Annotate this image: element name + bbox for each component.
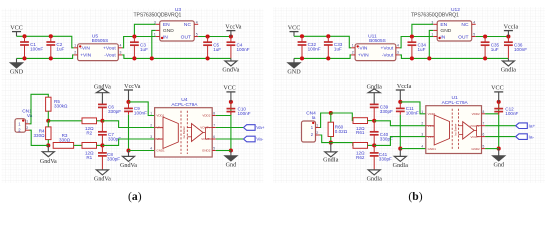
wire bbox=[122, 37, 156, 48]
svg-text:Gnd: Gnd bbox=[493, 162, 504, 168]
resistor R62 bbox=[353, 143, 368, 161]
capacitor C1 bbox=[20, 36, 43, 58]
capacitor C7 bbox=[98, 121, 121, 146]
capacitor C9 bbox=[124, 102, 147, 151]
grid region (a) bbox=[2, 9, 264, 184]
svg-text:1uF: 1uF bbox=[491, 47, 499, 52]
svg-text:330pF: 330pF bbox=[108, 109, 121, 114]
svg-text:ACPL-C79A: ACPL-C79A bbox=[442, 100, 469, 106]
wire bbox=[47, 140, 49, 146]
svg-text:GndVa: GndVa bbox=[222, 68, 239, 74]
junction bbox=[300, 56, 304, 60]
svg-text:VccIa: VccIa bbox=[504, 24, 519, 30]
ground Gnd bbox=[225, 156, 237, 169]
svg-text:GND: GND bbox=[287, 69, 301, 75]
capacitor C4 bbox=[227, 37, 250, 59]
svg-text:100nF: 100nF bbox=[514, 47, 527, 52]
junction bbox=[398, 100, 402, 104]
wire bbox=[30, 94, 49, 124]
junction bbox=[372, 143, 376, 147]
svg-text:1: 1 bbox=[150, 112, 152, 116]
wire bbox=[429, 30, 433, 58]
wire bbox=[331, 113, 353, 121]
svg-text:0.02Ω: 0.02Ω bbox=[335, 129, 348, 134]
ground GndIa bbox=[393, 156, 409, 169]
svg-text:Va+: Va+ bbox=[256, 125, 265, 131]
wire bbox=[507, 58, 509, 61]
svg-text:EN: EN bbox=[163, 22, 170, 28]
wire bbox=[101, 93, 103, 105]
svg-text:-VIN: -VIN bbox=[80, 46, 90, 52]
svg-text:100nF: 100nF bbox=[505, 111, 518, 116]
ground GND bbox=[287, 63, 301, 76]
port Va- bbox=[244, 136, 264, 143]
svg-text:+VIN: +VIN bbox=[80, 53, 91, 59]
svg-text:3: 3 bbox=[431, 20, 433, 24]
ground GndVa bbox=[94, 84, 111, 92]
svg-text:5: 5 bbox=[213, 147, 215, 151]
wire bbox=[374, 121, 426, 126]
wire bbox=[368, 120, 375, 122]
wire bbox=[230, 151, 232, 156]
wire bbox=[400, 148, 426, 150]
junction bbox=[497, 147, 501, 151]
pin numbers U4 bbox=[150, 112, 215, 151]
svg-text:R62: R62 bbox=[356, 155, 365, 160]
pin numbers CN4 bbox=[316, 123, 318, 135]
wire bbox=[17, 55, 74, 59]
output amplifier inside U4 bbox=[187, 124, 212, 142]
svg-text:100nF: 100nF bbox=[308, 47, 321, 52]
ground GndVa bbox=[222, 61, 239, 74]
junction bbox=[329, 141, 333, 145]
junction bbox=[132, 34, 136, 38]
svg-text:GND1: GND1 bbox=[428, 147, 437, 151]
wire bbox=[134, 24, 155, 36]
ground GndIa bbox=[367, 170, 383, 183]
svg-text:VDD2: VDD2 bbox=[202, 114, 210, 118]
capacitor C40 bbox=[370, 121, 393, 146]
ground Gnd bbox=[493, 156, 505, 169]
capacitor C32 bbox=[298, 36, 321, 58]
junction bbox=[126, 148, 130, 152]
wire bbox=[152, 30, 156, 58]
svg-text:1uF: 1uF bbox=[334, 47, 342, 52]
svg-text:2: 2 bbox=[74, 51, 76, 55]
svg-text:VCC: VCC bbox=[10, 25, 23, 31]
svg-text:4: 4 bbox=[196, 20, 198, 24]
pin numbers U1 bbox=[421, 110, 484, 149]
capacitor C35 bbox=[481, 37, 500, 59]
isolation amplifier U4 ACPL-C79A bbox=[155, 97, 216, 157]
grid region (b) bbox=[273, 7, 545, 183]
junction bbox=[22, 56, 26, 60]
svg-text:(b): (b) bbox=[408, 190, 422, 203]
svg-text:Iso Barrier: Iso Barrier bbox=[453, 123, 457, 135]
capacitor C6 bbox=[98, 104, 121, 120]
svg-text:4: 4 bbox=[473, 20, 475, 24]
wire bbox=[294, 36, 351, 48]
resistor R5 bbox=[46, 97, 68, 111]
svg-text:EN: EN bbox=[440, 22, 447, 28]
capacitor C2 bbox=[46, 36, 64, 58]
wire bbox=[330, 113, 332, 122]
wire bbox=[498, 149, 500, 156]
svg-text:NC: NC bbox=[461, 22, 469, 28]
wire bbox=[476, 36, 509, 38]
svg-text:100nF: 100nF bbox=[237, 47, 250, 52]
junction bbox=[326, 34, 330, 38]
wire bbox=[294, 55, 351, 59]
pin numbers U11 bbox=[352, 43, 399, 54]
svg-text:1uF: 1uF bbox=[56, 47, 64, 52]
wire bbox=[47, 111, 49, 121]
connector CN1 bbox=[15, 108, 33, 132]
svg-text:5: 5 bbox=[483, 145, 485, 149]
junction bbox=[410, 34, 414, 38]
svg-text:VCC: VCC bbox=[223, 86, 236, 92]
resistor R4 bbox=[33, 127, 51, 140]
svg-text:GndVa: GndVa bbox=[94, 177, 111, 183]
svg-text:IN: IN bbox=[163, 34, 168, 40]
junction bbox=[229, 100, 233, 104]
wire bbox=[129, 102, 155, 116]
svg-text:GndIa: GndIa bbox=[393, 163, 409, 169]
junction bbox=[49, 34, 53, 38]
junction bbox=[46, 119, 50, 123]
resistor R61 bbox=[353, 118, 368, 136]
power VCC bbox=[223, 86, 236, 92]
resistor R3 bbox=[53, 133, 73, 148]
capacitor C36 bbox=[504, 37, 527, 59]
svg-text:3: 3 bbox=[150, 135, 152, 139]
junction bbox=[483, 34, 487, 38]
wire bbox=[48, 120, 82, 122]
capacitor C11 bbox=[396, 102, 419, 149]
svg-text:VccIa: VccIa bbox=[397, 84, 412, 90]
wire bbox=[485, 136, 516, 138]
svg-text:GND: GND bbox=[163, 28, 174, 34]
wire bbox=[216, 138, 244, 140]
wire bbox=[331, 143, 353, 146]
ground GndVa bbox=[120, 156, 137, 169]
svg-text:8: 8 bbox=[483, 110, 485, 114]
svg-text:Iso Barrier: Iso Barrier bbox=[182, 126, 186, 138]
port Ia- bbox=[516, 134, 535, 141]
svg-text:NC: NC bbox=[184, 22, 192, 28]
port Ia+ bbox=[516, 123, 536, 129]
svg-text:3: 3 bbox=[397, 51, 399, 55]
svg-text:-Vout: -Vout bbox=[382, 53, 394, 59]
junction bbox=[329, 111, 333, 115]
wire bbox=[373, 93, 375, 105]
svg-text:100nF: 100nF bbox=[134, 110, 147, 115]
svg-text:GndIa: GndIa bbox=[323, 157, 339, 163]
wire bbox=[230, 31, 232, 37]
svg-text:7: 7 bbox=[483, 122, 485, 126]
svg-text:1uF: 1uF bbox=[140, 47, 148, 52]
capacitor C41 bbox=[370, 145, 392, 170]
svg-text:1: 1 bbox=[26, 120, 28, 124]
svg-text:1: 1 bbox=[352, 43, 354, 47]
wire bbox=[400, 55, 509, 59]
wire bbox=[412, 24, 433, 36]
svg-text:R1: R1 bbox=[86, 155, 92, 160]
svg-text:2: 2 bbox=[316, 131, 318, 135]
svg-text:8: 8 bbox=[213, 112, 215, 116]
junction bbox=[132, 56, 136, 60]
wire bbox=[216, 102, 231, 116]
svg-text:VDD2: VDD2 bbox=[472, 112, 480, 116]
modulator block inside U4 bbox=[155, 117, 179, 149]
wire bbox=[47, 121, 49, 127]
svg-text:OUT: OUT bbox=[181, 34, 191, 40]
svg-text:Ia-: Ia- bbox=[529, 134, 535, 140]
svg-text:TPS76350QDBVRQ1: TPS76350QDBVRQ1 bbox=[134, 12, 182, 18]
wire bbox=[400, 37, 434, 48]
svg-text:330pF: 330pF bbox=[380, 109, 393, 114]
svg-text:+Vout: +Vout bbox=[381, 46, 394, 52]
svg-text:Va-: Va- bbox=[256, 137, 264, 143]
svg-text:VCC: VCC bbox=[288, 25, 301, 31]
wire bbox=[216, 150, 231, 152]
svg-text:100nF: 100nF bbox=[238, 111, 251, 116]
junction bbox=[483, 56, 487, 60]
regulator U3 TPS76350QDBVRQ1 bbox=[134, 7, 199, 41]
svg-text:GndIa: GndIa bbox=[367, 84, 383, 90]
power VCC bbox=[491, 86, 504, 92]
wire bbox=[293, 58, 295, 62]
power VccVa bbox=[124, 84, 141, 90]
svg-text:GndIa: GndIa bbox=[501, 68, 517, 74]
pin numbers U3 bbox=[154, 20, 198, 36]
wire bbox=[400, 102, 426, 114]
wire bbox=[47, 145, 49, 151]
svg-text:OUT: OUT bbox=[458, 34, 468, 40]
svg-text:GND: GND bbox=[10, 69, 24, 75]
junction bbox=[22, 34, 26, 38]
power VccIa bbox=[504, 24, 519, 30]
wire bbox=[16, 58, 18, 62]
svg-text:B0505S: B0505S bbox=[92, 38, 109, 43]
wire bbox=[485, 125, 516, 127]
svg-text:R2: R2 bbox=[86, 130, 92, 135]
svg-text:Ia+: Ia+ bbox=[529, 123, 536, 129]
svg-text:GndVa: GndVa bbox=[94, 84, 111, 90]
junction bbox=[46, 143, 50, 147]
svg-text:1uF: 1uF bbox=[213, 47, 221, 52]
svg-text:GND2: GND2 bbox=[202, 149, 211, 153]
ground GndIa bbox=[323, 152, 339, 164]
svg-text:1: 1 bbox=[316, 123, 318, 127]
svg-text:330pF: 330pF bbox=[379, 157, 392, 162]
svg-text:(a): (a) bbox=[128, 190, 142, 203]
svg-text:-VIN: -VIN bbox=[358, 46, 368, 52]
junction bbox=[372, 119, 376, 123]
power VCC bbox=[10, 25, 23, 31]
wire bbox=[17, 36, 74, 48]
svg-text:1uF: 1uF bbox=[418, 47, 426, 52]
svg-text:330kΩ: 330kΩ bbox=[54, 103, 68, 108]
wire bbox=[122, 55, 231, 59]
ground GndIa bbox=[501, 61, 517, 74]
output amplifier inside U1 bbox=[459, 122, 482, 139]
svg-text:100nF: 100nF bbox=[30, 47, 43, 52]
isolation barrier inside U4 bbox=[181, 111, 187, 154]
wire bbox=[216, 127, 244, 129]
capacitor C12 bbox=[494, 102, 518, 149]
svg-text:4: 4 bbox=[397, 43, 399, 47]
svg-text:3: 3 bbox=[154, 20, 156, 24]
junction bbox=[427, 56, 431, 60]
svg-text:3: 3 bbox=[120, 51, 122, 55]
wire bbox=[507, 31, 509, 37]
wire bbox=[230, 92, 232, 102]
svg-text:3: 3 bbox=[421, 133, 423, 137]
svg-text:-Vout: -Vout bbox=[104, 53, 116, 59]
junction bbox=[229, 34, 233, 38]
wire bbox=[485, 102, 499, 114]
resistor R2 bbox=[82, 118, 97, 135]
resistor R60 bbox=[328, 122, 348, 136]
svg-text:IN: IN bbox=[440, 34, 445, 40]
svg-text:GND: GND bbox=[440, 28, 451, 34]
capacitor C10 bbox=[227, 102, 251, 151]
wire bbox=[102, 121, 154, 128]
wire bbox=[399, 149, 401, 157]
junction bbox=[100, 119, 104, 123]
power VccVa bbox=[225, 24, 242, 30]
capacitor C5 bbox=[203, 37, 221, 59]
wire bbox=[374, 137, 426, 146]
pin numbers U5 bbox=[74, 43, 121, 54]
svg-text:B0505S: B0505S bbox=[369, 38, 386, 43]
junction bbox=[326, 56, 330, 60]
svg-text:7: 7 bbox=[213, 124, 215, 128]
junction bbox=[398, 147, 402, 151]
svg-text:5: 5 bbox=[196, 33, 198, 37]
wire bbox=[97, 120, 103, 122]
wire bbox=[198, 36, 231, 38]
capacitor C39 bbox=[370, 104, 393, 120]
svg-text:1: 1 bbox=[431, 33, 433, 37]
junction bbox=[300, 34, 304, 38]
svg-text:6: 6 bbox=[483, 133, 485, 137]
wire bbox=[16, 32, 18, 37]
junction bbox=[100, 143, 104, 147]
svg-text:Ia: Ia bbox=[312, 115, 316, 120]
junction bbox=[49, 56, 53, 60]
svg-text:Gnd: Gnd bbox=[226, 162, 237, 168]
junction bbox=[506, 34, 510, 38]
junction bbox=[497, 100, 501, 104]
DC/DC converter U11 B0505S bbox=[351, 33, 400, 60]
wire bbox=[498, 92, 500, 102]
ground GndVa bbox=[40, 152, 57, 165]
wire bbox=[97, 144, 103, 146]
capacitor C8 bbox=[98, 145, 120, 170]
power VCC bbox=[288, 25, 301, 31]
svg-text:1: 1 bbox=[421, 110, 423, 114]
connector CN4 bbox=[302, 111, 320, 142]
svg-text:GndVa: GndVa bbox=[40, 159, 57, 165]
wire bbox=[128, 90, 130, 102]
pin numbers CN1 bbox=[26, 120, 28, 130]
svg-text:4: 4 bbox=[421, 145, 423, 149]
svg-text:5: 5 bbox=[473, 33, 475, 37]
junction bbox=[410, 56, 414, 60]
isolation amplifier U1 ACPL-C79A bbox=[426, 95, 485, 153]
wire bbox=[102, 139, 154, 145]
svg-text:1: 1 bbox=[154, 33, 156, 37]
svg-text:1: 1 bbox=[74, 43, 76, 47]
resistor R1 bbox=[82, 143, 97, 161]
wire bbox=[128, 151, 130, 157]
svg-text:R61: R61 bbox=[356, 130, 365, 135]
capacitor C34 bbox=[408, 37, 427, 59]
wire bbox=[293, 32, 295, 37]
wire bbox=[330, 137, 332, 143]
svg-text:GND2: GND2 bbox=[471, 147, 480, 151]
capacitor C3 bbox=[130, 37, 148, 59]
svg-text:330Ω: 330Ω bbox=[33, 133, 45, 138]
svg-text:Va: Va bbox=[27, 113, 33, 118]
wire bbox=[399, 90, 401, 102]
svg-text:VccVa: VccVa bbox=[225, 24, 242, 30]
wire bbox=[320, 113, 331, 128]
wire bbox=[485, 148, 499, 150]
svg-text:GndVa: GndVa bbox=[120, 163, 137, 169]
svg-text:2: 2 bbox=[26, 126, 28, 130]
svg-text:4: 4 bbox=[150, 147, 152, 151]
ground GND bbox=[10, 63, 24, 76]
capacitor C33 bbox=[324, 36, 343, 58]
regulator U12 TPS76350QDBVRQ1 bbox=[411, 7, 476, 41]
svg-text:2: 2 bbox=[150, 124, 152, 128]
power VccIa bbox=[396, 84, 412, 90]
DC/DC converter U5 B0505S bbox=[74, 33, 123, 60]
svg-text:GND1: GND1 bbox=[156, 149, 165, 153]
svg-text:100nF: 100nF bbox=[406, 110, 419, 115]
wire bbox=[30, 130, 49, 145]
svg-text:GndIa: GndIa bbox=[367, 177, 383, 183]
ground GndVa bbox=[94, 170, 111, 183]
svg-text:+Vout: +Vout bbox=[103, 46, 116, 52]
wire bbox=[330, 143, 332, 152]
svg-text:4: 4 bbox=[120, 43, 122, 47]
junction bbox=[206, 56, 210, 60]
svg-text:VCC: VCC bbox=[491, 86, 504, 92]
wire bbox=[74, 144, 82, 146]
wire bbox=[230, 58, 232, 61]
svg-text:ACPL-C79A: ACPL-C79A bbox=[171, 102, 198, 108]
svg-text:2: 2 bbox=[421, 122, 423, 126]
isolation barrier inside U1 bbox=[452, 109, 458, 151]
pin numbers U12 bbox=[431, 20, 475, 36]
junction bbox=[150, 56, 154, 60]
wire bbox=[129, 150, 155, 152]
svg-text:330Ω: 330Ω bbox=[59, 138, 71, 143]
svg-text:6: 6 bbox=[213, 135, 215, 139]
junction bbox=[229, 148, 233, 152]
port Va+ bbox=[244, 125, 265, 132]
wire bbox=[320, 135, 331, 143]
svg-text:2: 2 bbox=[352, 51, 354, 55]
svg-text:TPS76350QDBVRQ1: TPS76350QDBVRQ1 bbox=[411, 12, 459, 18]
wire bbox=[368, 144, 375, 146]
svg-text:330pF: 330pF bbox=[107, 157, 120, 162]
junction bbox=[126, 100, 130, 104]
